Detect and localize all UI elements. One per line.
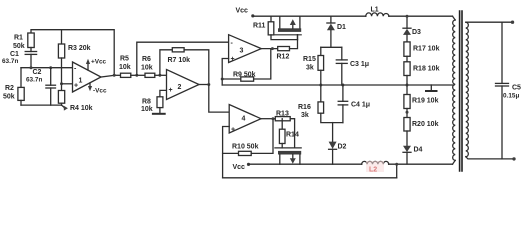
resistor R9 feedback xyxy=(222,49,271,82)
svg-text:C5: C5 xyxy=(512,85,521,92)
wire mid sense rail xyxy=(222,84,454,87)
resistor R8 xyxy=(141,90,167,113)
svg-text:R4 10k: R4 10k xyxy=(70,105,93,112)
wire top-left feedback rail xyxy=(31,30,114,76)
wire rail2 return xyxy=(223,163,399,178)
wire left ground run xyxy=(21,104,62,106)
wire op2 output node xyxy=(199,83,229,112)
svg-text:D1: D1 xyxy=(337,24,346,31)
svg-text:1: 1 xyxy=(79,78,83,85)
svg-text:D2: D2 xyxy=(338,144,347,151)
capacitor C2 xyxy=(26,68,56,105)
svg-text:C1: C1 xyxy=(10,51,19,58)
capacitor C4 xyxy=(338,85,370,123)
diode D1 xyxy=(327,16,346,47)
inductor L2 xyxy=(362,161,389,174)
svg-text:R7 10k: R7 10k xyxy=(168,57,191,64)
transformer T1 primary xyxy=(453,16,456,164)
transistor Q2 mosfet xyxy=(275,148,301,164)
wire bottom rail xyxy=(249,163,362,165)
svg-text:4: 4 xyxy=(242,116,246,123)
svg-text:50k: 50k xyxy=(3,94,15,101)
-Vcc pin xyxy=(88,83,107,95)
svg-text:R19 10k: R19 10k xyxy=(412,98,439,105)
svg-text:R5: R5 xyxy=(120,56,129,63)
svg-text:L1: L1 xyxy=(371,7,379,14)
resistor R10 feedback xyxy=(223,119,273,178)
svg-text:3k: 3k xyxy=(301,112,309,119)
wire wien node xyxy=(21,66,73,69)
inductor L1 xyxy=(366,7,389,17)
capacitor C1 xyxy=(2,48,37,68)
wire node X to op3 input xyxy=(137,42,229,75)
svg-text:Vcc: Vcc xyxy=(233,164,246,171)
svg-text:63.7n: 63.7n xyxy=(2,58,18,65)
capacitor C5 xyxy=(496,22,522,159)
svg-text:R3 20k: R3 20k xyxy=(68,45,91,52)
wire op1 output xyxy=(101,74,121,77)
svg-text:R8: R8 xyxy=(142,99,151,106)
wire sub rail R15 C3 xyxy=(321,46,342,48)
svg-text:+: + xyxy=(231,127,235,134)
svg-text:10k: 10k xyxy=(141,65,153,72)
resistor R13 xyxy=(261,111,295,148)
svg-text:R6: R6 xyxy=(142,56,151,63)
svg-text:D4: D4 xyxy=(414,147,423,154)
svg-text:50k: 50k xyxy=(13,43,25,50)
resistor R6 xyxy=(141,56,155,77)
svg-text:10k: 10k xyxy=(119,64,131,71)
svg-text:R17 10k: R17 10k xyxy=(413,46,440,53)
svg-text:R15: R15 xyxy=(303,56,316,63)
svg-text:R2: R2 xyxy=(5,85,14,92)
capacitor C3 xyxy=(336,47,369,85)
svg-text:Vcc: Vcc xyxy=(236,8,249,15)
svg-text:10k: 10k xyxy=(141,106,153,113)
Vcc top label xyxy=(236,8,255,18)
svg-text:C4 1μ: C4 1μ xyxy=(351,102,370,109)
transformer T1 secondary xyxy=(466,21,516,161)
+Vcc pin xyxy=(86,59,107,71)
resistor R16 xyxy=(298,85,343,123)
op-amp U2 xyxy=(167,70,200,100)
svg-text:+: + xyxy=(231,56,235,63)
resistor R19 xyxy=(404,95,439,118)
resistor R2 xyxy=(3,68,24,105)
diode D3 xyxy=(403,15,421,42)
svg-text:-Vcc: -Vcc xyxy=(93,88,107,95)
svg-text:2: 2 xyxy=(178,84,182,91)
resistor R12 xyxy=(261,35,297,61)
transformer core xyxy=(460,11,462,171)
svg-text:R12: R12 xyxy=(277,54,290,61)
svg-text:R9 50k: R9 50k xyxy=(233,72,256,79)
diode D2 xyxy=(329,123,347,165)
resistor R3 xyxy=(58,30,90,91)
transistor Q1 mosfet xyxy=(275,16,301,39)
op-amp U4 xyxy=(229,105,261,134)
svg-text:63.7n: 63.7n xyxy=(26,77,42,84)
svg-text:C2: C2 xyxy=(33,69,42,76)
op-amp U1 xyxy=(73,62,102,92)
resistor R18 xyxy=(404,62,440,95)
svg-text:R20 10k: R20 10k xyxy=(412,121,439,128)
svg-text:R13: R13 xyxy=(276,111,289,118)
svg-text:3: 3 xyxy=(240,48,244,55)
svg-text:D3: D3 xyxy=(412,29,421,36)
op-amp U3 xyxy=(229,35,262,63)
svg-text:3k: 3k xyxy=(306,65,314,72)
resistor R15 xyxy=(303,47,324,85)
resistor R14 xyxy=(279,119,299,148)
Vcc bottom label xyxy=(233,163,251,171)
wire op3 noninverting branch xyxy=(221,59,229,86)
resistor R20 xyxy=(404,118,439,146)
ground mid rail xyxy=(426,85,437,91)
svg-text:R10 50k: R10 50k xyxy=(232,144,259,151)
resistor R5 xyxy=(119,56,131,78)
wire top Vcc rail xyxy=(253,15,366,17)
resistor R7 feedback loop xyxy=(160,48,209,85)
svg-text:R11: R11 xyxy=(253,23,266,30)
svg-text:R14: R14 xyxy=(286,132,299,139)
svg-text:R1: R1 xyxy=(14,35,23,42)
svg-text:R16: R16 xyxy=(298,104,311,111)
diode D4 xyxy=(403,146,423,164)
resistor R1 xyxy=(13,33,34,50)
svg-text:L2: L2 xyxy=(369,167,377,174)
svg-text:+: + xyxy=(74,83,78,90)
resistor R4 xyxy=(58,91,92,112)
node X wire xyxy=(131,74,145,77)
svg-text:+Vcc: +Vcc xyxy=(91,59,107,66)
svg-text:C3 1μ: C3 1μ xyxy=(350,61,369,68)
resistor R11 xyxy=(253,16,298,39)
svg-text:0.15μ: 0.15μ xyxy=(503,93,519,100)
svg-text:+: + xyxy=(169,87,173,94)
wire to op2 inverting input xyxy=(155,74,167,77)
svg-text:R18 10k: R18 10k xyxy=(413,66,440,73)
resistor R17 xyxy=(404,42,440,62)
ground arrow left xyxy=(62,105,68,111)
